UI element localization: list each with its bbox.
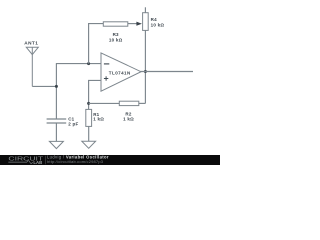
op-amp U1 xyxy=(101,53,141,91)
antenna ANT1 xyxy=(26,47,38,86)
junction non-inverting branch / R2 xyxy=(87,102,90,105)
svg-text:TL0741N: TL0741N xyxy=(109,70,131,75)
footer divider xyxy=(45,156,47,164)
junction antenna / left rail xyxy=(55,85,58,88)
wire R3 branch xyxy=(89,24,104,64)
svg-text:10 kΩ: 10 kΩ xyxy=(151,23,165,28)
wire R1 to ground xyxy=(88,126,90,141)
potentiometer R4 xyxy=(143,13,149,31)
wiper arrow of potentiometer R4 xyxy=(136,22,142,26)
wire R2 left xyxy=(89,102,120,104)
wire antenna to left rail xyxy=(32,85,56,87)
wire R4 bottom / output rail down to R2 xyxy=(144,30,146,103)
svg-text:ANT1: ANT1 xyxy=(24,41,38,46)
resistor R3 xyxy=(103,22,128,26)
resistor R1 xyxy=(86,109,92,126)
wire non-inverting input branch xyxy=(89,80,101,109)
wire R3 to R4 wiper xyxy=(128,23,137,25)
wire R4 top stub xyxy=(144,7,146,12)
resistor R2 xyxy=(119,101,139,105)
wire C1 to ground xyxy=(55,123,57,141)
wire output to open end xyxy=(141,71,194,73)
svg-text:1 kΩ: 1 kΩ xyxy=(93,117,104,122)
svg-text:2 pF: 2 pF xyxy=(68,122,78,127)
capacitor C1 xyxy=(47,119,67,123)
wire left rail xyxy=(55,64,57,119)
svg-text:http://circuitlab.com/c2987p3: http://circuitlab.com/c2987p3 xyxy=(47,159,104,164)
junction inverting input / R3 branch xyxy=(87,62,90,65)
ground below C1 xyxy=(49,141,63,148)
junction op-amp output node xyxy=(144,70,147,73)
wire R2 right to output rail xyxy=(139,102,146,104)
footer bar xyxy=(0,155,220,165)
svg-text:R3: R3 xyxy=(113,32,119,37)
svg-text:R4: R4 xyxy=(151,17,157,22)
ground below R1 xyxy=(82,141,96,148)
svg-text:10 kΩ: 10 kΩ xyxy=(109,37,123,42)
svg-text:1 kΩ: 1 kΩ xyxy=(123,117,134,122)
svg-text:LAB: LAB xyxy=(33,160,42,165)
CircuitLab logo xyxy=(8,156,44,165)
wire inverting input xyxy=(56,63,101,65)
